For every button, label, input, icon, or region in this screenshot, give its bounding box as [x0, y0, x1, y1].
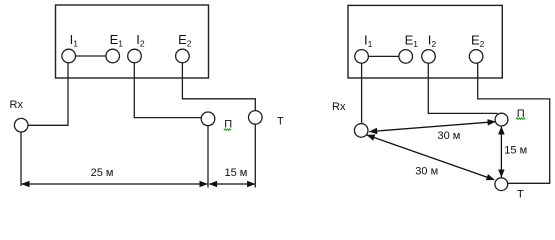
terminal I2 (left): [128, 49, 142, 63]
distance arrow Rx-П 30 m (right): [369, 122, 495, 132]
svg-text:25 м: 25 м: [91, 167, 114, 179]
extension line below T (left): [254, 124, 256, 187]
terminal E1 (left): [106, 49, 120, 63]
electrode П (right potential probe): [495, 113, 508, 126]
svg-text:Rx: Rx: [332, 101, 346, 113]
svg-text:T: T: [517, 188, 524, 200]
extension line below П (left): [207, 126, 209, 188]
svg-text:30 м: 30 м: [415, 166, 438, 178]
distance arrow П-T 15 m (right): [500, 127, 502, 178]
terminal I1 (right): [355, 50, 369, 64]
wire I2 to П electrode (left): [134, 63, 201, 118]
wire I2 to П electrode (right): [428, 63, 497, 113]
terminal I2 (right): [422, 50, 436, 64]
svg-text:T: T: [277, 115, 284, 127]
wire E2 to T electrode (right): [478, 63, 550, 183]
electrode T (left current probe): [249, 111, 263, 125]
terminal E1 (right): [399, 50, 413, 64]
jumper wire I1-E1 (left): [76, 55, 106, 57]
svg-text:15 м: 15 м: [504, 145, 527, 157]
electrode Rx (right): [354, 124, 368, 138]
spellcheck squiggle under П (right): [516, 118, 525, 120]
electrode Rx (left): [14, 118, 28, 132]
dimension arrow 25 m (left): [22, 183, 208, 185]
jumper wire I1-E1 (right): [368, 55, 399, 57]
extension line below Rx (left): [20, 132, 22, 186]
svg-text:30 м: 30 м: [438, 130, 461, 142]
distance arrow Rx-T 30 m (right): [367, 135, 495, 180]
dimension arrow 15 m (left): [209, 183, 255, 185]
electrode T (right current probe): [495, 178, 508, 191]
instrument box (left megger): [56, 5, 209, 78]
wire E2 to T electrode (left): [182, 63, 255, 111]
terminal E2 (right): [469, 50, 483, 64]
wire I1 to Rx electrode (left): [28, 63, 68, 126]
instrument box (right megger): [348, 5, 502, 78]
svg-text:Rx: Rx: [10, 99, 24, 111]
spellcheck squiggle under П (left): [224, 129, 231, 131]
terminal E2 (left): [176, 49, 190, 63]
terminal I1 (left): [62, 49, 76, 63]
svg-text:15 м: 15 м: [225, 167, 248, 179]
wire I1 to Rx electrode (right): [361, 63, 363, 123]
electrode П (left potential probe): [201, 112, 215, 126]
